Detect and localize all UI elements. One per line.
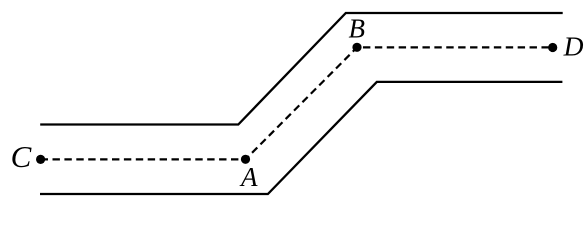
svg-text:B: B [349,13,366,43]
svg-text:D: D [563,31,584,62]
svg-text:A: A [239,162,258,192]
svg-text:C: C [11,139,32,174]
